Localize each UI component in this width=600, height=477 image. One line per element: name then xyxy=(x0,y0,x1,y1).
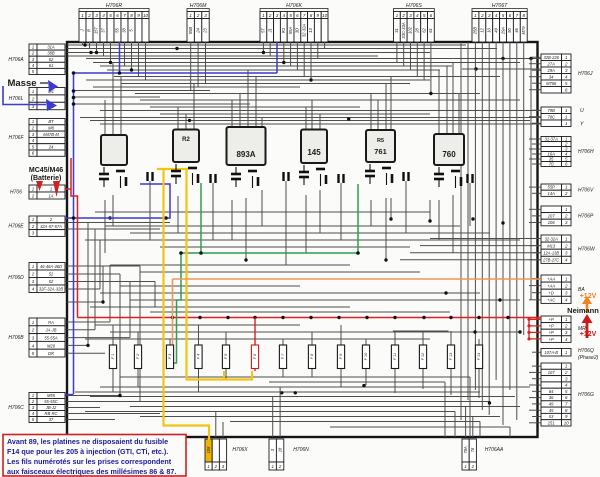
relay 893A xyxy=(227,127,266,165)
svg-text:25B: 25B xyxy=(473,27,478,36)
wire xyxy=(119,274,121,396)
svg-text:50: 50 xyxy=(507,28,512,33)
wire xyxy=(319,114,321,130)
wire xyxy=(452,63,454,135)
svg-text:3: 3 xyxy=(95,13,98,18)
svg-text:145: 145 xyxy=(307,148,321,157)
svg-text:53: 53 xyxy=(549,414,554,419)
wire xyxy=(529,63,538,65)
svg-text:Masse: Masse xyxy=(7,78,36,89)
wire xyxy=(131,42,133,70)
svg-text:2: 2 xyxy=(564,243,568,248)
wire xyxy=(502,59,504,426)
wire xyxy=(139,266,141,402)
connector H706Q xyxy=(541,349,562,357)
wire xyxy=(370,200,372,226)
wire xyxy=(305,107,307,130)
svg-text:45: 45 xyxy=(549,408,554,413)
svg-text:76: 76 xyxy=(470,447,475,452)
svg-text:H706E: H706E xyxy=(8,224,24,230)
svg-text:6: 6 xyxy=(296,13,299,18)
wire xyxy=(67,265,140,267)
svg-text:2: 2 xyxy=(31,272,35,277)
svg-text:H706J: H706J xyxy=(578,71,593,77)
wire xyxy=(102,266,104,302)
svg-text:2: 2 xyxy=(196,13,200,18)
junction xyxy=(347,117,350,120)
svg-text:12A-13B: 12A-13B xyxy=(543,251,559,256)
relay contact symbols xyxy=(103,167,105,173)
svg-text:M47B-M: M47B-M xyxy=(43,132,59,137)
svg-text:29A: 29A xyxy=(547,68,556,73)
wire xyxy=(532,351,538,353)
svg-text:2: 2 xyxy=(31,328,35,333)
svg-text:H706P: H706P xyxy=(578,213,594,219)
wire xyxy=(458,94,460,135)
fuse F7 xyxy=(279,345,286,369)
junction xyxy=(262,51,265,54)
wire xyxy=(283,42,285,63)
red wire MR stubs xyxy=(529,318,541,339)
wire xyxy=(532,403,538,405)
wire xyxy=(481,59,483,411)
wire xyxy=(462,68,541,70)
svg-text:79B: 79B xyxy=(548,108,556,113)
fuse F3 xyxy=(166,345,173,369)
junction xyxy=(175,47,178,50)
blue wire xyxy=(73,73,75,394)
wire xyxy=(137,332,139,345)
wire xyxy=(532,56,538,58)
wire xyxy=(310,42,312,80)
svg-text:4: 4 xyxy=(495,13,498,18)
svg-text:2: 2 xyxy=(31,224,35,229)
svg-text:H706R: H706R xyxy=(106,3,122,9)
wire xyxy=(67,344,88,346)
svg-text:H706S: H706S xyxy=(406,3,422,9)
wire xyxy=(340,325,342,345)
wire xyxy=(405,181,407,233)
wire xyxy=(67,321,110,323)
wire xyxy=(75,391,480,393)
wire xyxy=(509,42,511,121)
wire xyxy=(67,352,105,354)
wire xyxy=(279,387,281,437)
wire xyxy=(261,118,263,128)
svg-text:2: 2 xyxy=(564,324,568,329)
svg-text:32-32A: 32-32A xyxy=(545,236,558,241)
svg-text:F 7: F 7 xyxy=(281,353,285,359)
wire xyxy=(400,259,541,261)
red wire fuse F6 feed xyxy=(254,318,256,346)
wire xyxy=(532,365,538,367)
wire xyxy=(488,111,490,416)
junction xyxy=(281,316,284,319)
svg-text:7: 7 xyxy=(123,13,126,18)
red wire fuse F6 out xyxy=(254,369,256,372)
connector H706M xyxy=(187,9,209,12)
connector H706F xyxy=(29,119,37,125)
svg-text:2: 2 xyxy=(87,13,91,18)
wire xyxy=(422,332,424,345)
svg-text:49: 49 xyxy=(549,402,554,407)
wire xyxy=(74,90,210,92)
svg-text:760: 760 xyxy=(442,150,456,159)
wire xyxy=(305,195,307,253)
wire xyxy=(129,282,131,338)
wire xyxy=(523,42,525,118)
connector xyxy=(541,107,562,114)
wire xyxy=(529,148,538,150)
svg-text:(Batterie): (Batterie) xyxy=(31,175,62,182)
svg-text:5T: 5T xyxy=(261,28,266,33)
wire xyxy=(205,42,207,84)
connector H706V xyxy=(541,184,562,190)
wire xyxy=(140,99,520,101)
wire xyxy=(390,198,392,219)
connector H706X xyxy=(205,439,212,462)
wire xyxy=(423,42,425,80)
wire xyxy=(120,285,300,287)
svg-text:1: 1 xyxy=(474,13,477,18)
wire xyxy=(130,299,520,301)
wire xyxy=(282,339,284,345)
svg-text:H706H: H706H xyxy=(578,149,594,155)
fuse F1 xyxy=(109,345,116,369)
junction xyxy=(226,316,229,319)
relay R2 xyxy=(173,130,199,163)
svg-text:F 1: F 1 xyxy=(111,354,115,359)
wire xyxy=(100,123,541,125)
junction xyxy=(488,401,491,404)
svg-text:H706A: H706A xyxy=(8,57,24,63)
svg-text:H706G: H706G xyxy=(578,392,594,398)
wire xyxy=(67,281,155,283)
contact pair xyxy=(209,174,211,183)
junction xyxy=(477,316,480,319)
svg-text:893A: 893A xyxy=(236,150,255,159)
wire xyxy=(532,69,538,71)
wire xyxy=(245,198,247,260)
svg-text:3: 3 xyxy=(276,13,279,18)
svg-text:34: 34 xyxy=(549,74,554,79)
connector H706G xyxy=(541,363,562,369)
junction xyxy=(244,258,247,261)
svg-text:10: 10 xyxy=(486,28,491,33)
svg-text:2: 2 xyxy=(401,13,405,18)
wire xyxy=(269,42,271,56)
svg-text:H706AA: H706AA xyxy=(485,447,504,453)
wire xyxy=(135,93,480,95)
wire xyxy=(67,48,497,50)
contact pair xyxy=(402,172,404,181)
wire xyxy=(261,190,263,226)
relay 761 xyxy=(366,130,395,162)
svg-text:107: 107 xyxy=(548,214,556,219)
svg-text:5: 5 xyxy=(289,13,292,18)
svg-text:F 8: F 8 xyxy=(310,353,314,359)
wire xyxy=(410,252,541,254)
relay 145 xyxy=(301,130,327,164)
wire xyxy=(311,332,313,345)
junction xyxy=(309,316,312,319)
junction xyxy=(474,67,477,70)
junction xyxy=(108,216,111,219)
wire xyxy=(272,397,274,437)
svg-text:55A: 55A xyxy=(288,27,293,35)
svg-text:3: 3 xyxy=(204,13,207,18)
wire xyxy=(100,386,530,388)
wire xyxy=(67,55,378,57)
svg-text:F 9: F 9 xyxy=(339,353,343,359)
relay R1 xyxy=(101,135,127,165)
wire xyxy=(416,42,418,77)
svg-text:1: 1 xyxy=(50,186,52,191)
wire xyxy=(198,369,200,393)
wire xyxy=(403,42,405,66)
svg-text:JB-J2: JB-J2 xyxy=(45,405,57,410)
wire xyxy=(438,200,440,240)
wire xyxy=(225,332,227,345)
wire xyxy=(523,118,525,336)
wire xyxy=(114,76,500,78)
wire xyxy=(495,42,497,100)
svg-text:151: 151 xyxy=(548,420,555,425)
fuse F2 xyxy=(134,345,141,369)
wire xyxy=(478,339,480,345)
wire xyxy=(509,121,511,391)
svg-text:33C-33A: 33C-33A xyxy=(401,22,406,38)
wire xyxy=(104,200,106,253)
blue wire xyxy=(65,394,74,396)
svg-text:32F-32A-32B: 32F-32A-32B xyxy=(39,287,64,292)
wire xyxy=(365,339,367,345)
wire xyxy=(529,397,538,399)
svg-text:31-37A: 31-37A xyxy=(545,136,558,141)
wire xyxy=(532,252,538,254)
svg-text:8: 8 xyxy=(130,13,133,18)
svg-text:2: 2 xyxy=(564,283,568,288)
wire xyxy=(532,82,538,84)
junction xyxy=(109,61,112,64)
junction xyxy=(527,331,530,334)
connector H706B xyxy=(29,318,37,326)
svg-text:F 5: F 5 xyxy=(224,353,228,359)
wire xyxy=(67,44,466,46)
wire xyxy=(93,62,520,64)
wire xyxy=(110,331,520,333)
wire xyxy=(467,42,469,63)
junction xyxy=(282,61,285,64)
wire xyxy=(529,299,538,301)
wire xyxy=(530,59,532,301)
junction xyxy=(429,92,432,95)
junction xyxy=(198,316,201,319)
svg-text:F 6: F 6 xyxy=(253,353,257,359)
svg-text:12: 12 xyxy=(480,28,485,33)
wire xyxy=(529,222,538,224)
wire xyxy=(393,330,449,332)
wire xyxy=(269,381,445,383)
fuse F5 xyxy=(222,345,229,369)
wire xyxy=(532,390,538,392)
wire xyxy=(532,215,538,217)
fuse F12 xyxy=(419,345,426,369)
svg-text:6: 6 xyxy=(430,13,433,18)
wire xyxy=(74,103,250,105)
svg-text:RA: RA xyxy=(48,320,54,325)
fuse F13 xyxy=(447,345,454,369)
wire xyxy=(529,384,538,386)
wire xyxy=(138,42,140,77)
wire xyxy=(532,378,538,380)
junction xyxy=(188,119,191,122)
wire xyxy=(100,65,452,67)
svg-text:8: 8 xyxy=(310,13,313,18)
wire xyxy=(532,416,538,418)
connector H706S xyxy=(394,9,435,12)
junction xyxy=(253,316,256,319)
junction xyxy=(362,384,365,387)
platine main board outline xyxy=(67,42,538,437)
wire xyxy=(67,413,160,415)
wire xyxy=(95,324,300,326)
connector H706T xyxy=(472,9,527,12)
wire xyxy=(285,181,287,265)
wire xyxy=(516,42,518,124)
junction xyxy=(501,57,504,60)
svg-text:46-46A-46D: 46-46A-46D xyxy=(40,264,62,269)
svg-text:37: 37 xyxy=(49,417,54,422)
svg-text:3: 3 xyxy=(409,13,412,18)
wire xyxy=(311,369,313,378)
wire xyxy=(67,273,120,275)
wire xyxy=(262,42,264,53)
wire xyxy=(67,419,115,421)
svg-text:MC45/M46: MC45/M46 xyxy=(29,167,63,174)
svg-text:F 14: F 14 xyxy=(477,353,481,361)
wire xyxy=(107,69,440,71)
wire xyxy=(460,44,462,420)
relay contact symbols xyxy=(438,167,440,173)
svg-text:1: 1 xyxy=(81,13,84,18)
svg-text:H706F: H706F xyxy=(8,135,24,141)
svg-text:5: 5 xyxy=(423,13,426,18)
connector H706P xyxy=(541,206,562,213)
wire xyxy=(197,42,199,87)
svg-text:BT: BT xyxy=(48,119,54,124)
wire xyxy=(90,396,515,398)
junction xyxy=(72,89,76,93)
green wire xyxy=(200,183,202,253)
wire xyxy=(478,369,480,399)
wire xyxy=(495,100,497,380)
svg-text:3D: 3D xyxy=(295,28,300,33)
wire xyxy=(212,183,214,240)
wire xyxy=(120,376,470,378)
wire xyxy=(67,222,170,224)
connector MR xyxy=(541,316,562,323)
svg-text:107A-B: 107A-B xyxy=(544,350,558,355)
svg-text:62: 62 xyxy=(421,28,426,33)
svg-text:37: 37 xyxy=(101,28,106,33)
wire xyxy=(317,42,319,59)
contact pair xyxy=(282,172,284,181)
junction xyxy=(95,51,98,54)
svg-text:F 3: F 3 xyxy=(168,353,172,359)
svg-text:32B-226: 32B-226 xyxy=(543,55,559,60)
svg-text:H706K: H706K xyxy=(286,3,302,9)
svg-text:U: U xyxy=(580,108,584,114)
connector H706N xyxy=(269,439,276,462)
svg-text:H706Q: H706Q xyxy=(578,348,594,354)
junction xyxy=(422,316,425,319)
wire xyxy=(160,246,410,248)
svg-text:Avant 89, les platines ne disp: Avant 89, les platines ne disposaient du… xyxy=(7,437,168,446)
wire xyxy=(149,181,151,240)
svg-text:+D: +D xyxy=(549,291,554,296)
junction xyxy=(393,316,396,319)
wire xyxy=(394,331,396,345)
svg-text:32A-57-57A: 32A-57-57A xyxy=(40,224,62,229)
wire xyxy=(340,183,342,240)
wire xyxy=(385,198,387,260)
svg-text:7: 7 xyxy=(516,13,519,18)
svg-text:RB-RC: RB-RC xyxy=(45,411,58,416)
svg-text:10: 10 xyxy=(143,13,149,18)
junction xyxy=(498,298,501,301)
wire xyxy=(394,369,396,394)
svg-text:M8: M8 xyxy=(48,126,54,131)
wire xyxy=(145,42,147,80)
blue wire xyxy=(74,72,278,74)
junction xyxy=(72,102,76,106)
wire xyxy=(472,417,474,437)
connector BA xyxy=(541,275,562,282)
wire xyxy=(112,369,114,393)
wire xyxy=(529,422,538,424)
svg-text:+12V: +12V xyxy=(580,331,597,338)
wire xyxy=(454,412,456,438)
label MR +12V red arrow xyxy=(586,322,589,338)
blue wire xyxy=(276,42,278,73)
wire xyxy=(529,371,538,373)
junction xyxy=(118,394,121,397)
svg-text:JA-JB: JA-JB xyxy=(45,328,57,333)
fuse F14 xyxy=(475,345,482,369)
junction xyxy=(527,337,530,340)
wire xyxy=(377,100,379,130)
svg-text:R5: R5 xyxy=(377,138,384,144)
contact pair xyxy=(466,174,468,183)
svg-text:108: 108 xyxy=(206,446,211,454)
svg-text:27A: 27A xyxy=(547,61,556,66)
wire xyxy=(160,113,430,115)
connector H706E xyxy=(29,216,37,223)
svg-text:H706T: H706T xyxy=(492,3,508,9)
wire xyxy=(255,77,257,128)
svg-text:F 2: F 2 xyxy=(136,353,140,359)
wire xyxy=(529,259,538,261)
svg-text:31A: 31A xyxy=(47,45,55,50)
svg-text:M20: M20 xyxy=(47,343,56,348)
wire xyxy=(110,264,350,266)
connector H706R xyxy=(79,9,149,12)
svg-text:1: 1 xyxy=(189,13,192,18)
svg-text:2: 2 xyxy=(564,214,568,219)
yellow wire xyxy=(187,169,253,380)
svg-text:2: 2 xyxy=(564,370,568,375)
